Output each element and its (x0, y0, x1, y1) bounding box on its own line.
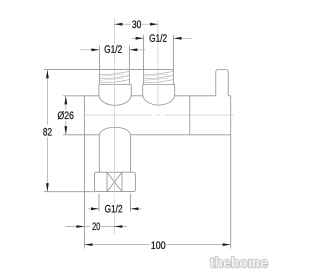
arrow G1/2-right right (174, 37, 182, 40)
dim 20 line (65, 226, 127, 228)
dim 100 line (85, 244, 231, 246)
arrow G1/2-left left (91, 48, 99, 51)
arrow G1/2-left right (129, 48, 137, 51)
dim 82 vertical line (46, 70, 48, 192)
centerline vertical right inlet (157, 20, 159, 106)
collar left inlet (99, 85, 131, 95)
dim 30: line + leader (114, 23, 158, 25)
centerline vertical left (axis of inlet/outlet) (113, 18, 115, 234)
body internal edge (189, 96, 191, 135)
arrow G1/2-right left (136, 37, 144, 40)
bottom G1/2 extension lines (99, 194, 131, 212)
arrow 20 right (114, 225, 122, 228)
82 bottom extension line / nut bottom extension (44, 191, 94, 193)
arrows (black filled) (46, 23, 231, 246)
label G1/2 right (150, 34, 167, 42)
nut outline (95, 172, 136, 191)
label 100 (152, 241, 166, 249)
centerline horizontal body axis (84, 114, 233, 116)
dim O26 extension ticks (63, 96, 84, 135)
white gaps behind G1/2 labels (break centerlines) (104, 44, 123, 53)
bottom outlet dome (99, 127, 130, 135)
bottom outlet pipe edges (99, 135, 130, 172)
dome right inlet (143, 95, 175, 106)
arrow O26 down (64, 126, 67, 134)
arrow 30 left (114, 23, 122, 26)
body right edge + 100 right extension line (230, 96, 232, 249)
label 20 (93, 223, 101, 231)
label G1/2 left (105, 45, 122, 53)
collar right inlet (143, 85, 175, 95)
thread G1/2 right inlet: side edges + extension lines (144, 35, 174, 85)
dome left inlet (99, 95, 131, 106)
arrow G1/2-bottom right (131, 207, 139, 210)
thread G1/2 left inlet: side edges + extension lines up to dimension (99, 46, 129, 85)
dim O26 vertical line (65, 96, 67, 135)
label 30 (132, 21, 141, 29)
arrow 82 up (46, 70, 49, 78)
label G1/2 bottom (105, 205, 122, 213)
label O26 (58, 111, 74, 119)
thread hatch right (144, 72, 174, 83)
nut facet lines (107, 172, 122, 191)
small top outlet cylinder (216, 70, 228, 96)
watermark thehome (210, 257, 267, 268)
dim G1/2 right leaders (132, 37, 193, 39)
arrow O26 up (64, 96, 67, 104)
wire: top face line of both threaded inlets + 82 top extension (44, 69, 173, 71)
body left edge + 20/100 left extension line (83, 96, 85, 249)
thread hatch left (99, 72, 129, 83)
watermark thehome fill (210, 257, 267, 268)
nut X cross (107, 172, 122, 191)
dim G1/2 bottom leaders (88, 208, 142, 210)
arrow 30 right (150, 23, 158, 26)
arrow G1/2-bottom left (91, 207, 99, 210)
watermark thehome shadow (211, 258, 268, 269)
arrow 100 right (223, 243, 231, 246)
arrow 82 down (46, 183, 49, 191)
body bottom line (y=134.8) segments, includes O26 bottom extension (63, 134, 231, 136)
arrow 100 left (85, 243, 93, 246)
arrow 20 left (76, 225, 84, 228)
body top line (y=95.8) segments (63, 95, 231, 97)
label 82 (43, 128, 51, 136)
dim G1/2 left leaders (80, 49, 145, 51)
